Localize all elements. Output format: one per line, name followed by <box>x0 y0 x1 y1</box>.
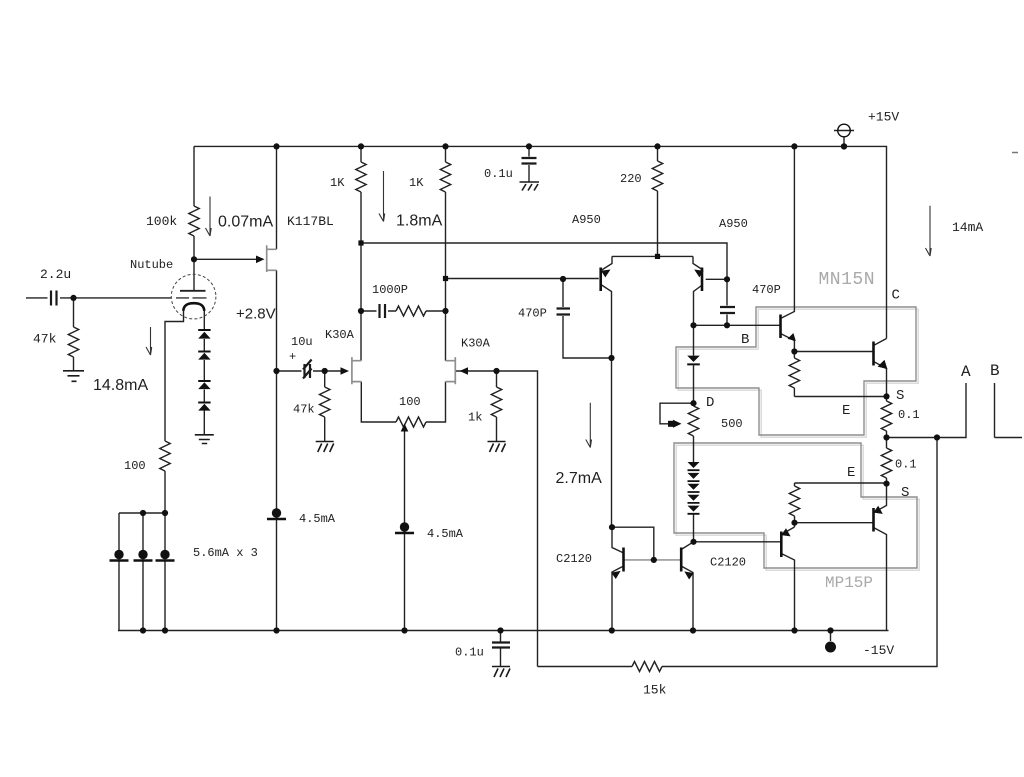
svg-text:15k: 15k <box>643 683 667 698</box>
svg-text:220: 220 <box>620 172 642 186</box>
svg-text:1k: 1k <box>468 411 482 425</box>
svg-text:1K: 1K <box>409 176 424 190</box>
svg-text:E: E <box>847 465 855 481</box>
svg-text:D: D <box>706 395 714 411</box>
svg-text:100k: 100k <box>146 214 177 229</box>
svg-text:C: C <box>892 288 900 304</box>
svg-text:500: 500 <box>721 417 743 431</box>
svg-text:A950: A950 <box>572 213 601 227</box>
svg-text:0.1: 0.1 <box>898 408 920 422</box>
svg-text:C2120: C2120 <box>556 552 592 566</box>
svg-text:47k: 47k <box>33 332 57 347</box>
svg-text:0.1u: 0.1u <box>484 167 513 181</box>
svg-text:0.1: 0.1 <box>895 458 917 472</box>
svg-text:470P: 470P <box>752 283 781 297</box>
svg-text:10u: 10u <box>291 335 313 349</box>
svg-text:0.07mA: 0.07mA <box>218 214 273 231</box>
svg-text:+15V: +15V <box>868 110 899 125</box>
svg-text:S: S <box>901 485 909 501</box>
svg-text:+2.8V: +2.8V <box>236 306 276 323</box>
svg-text:K117BL: K117BL <box>287 214 334 229</box>
svg-text:MP15P: MP15P <box>825 574 873 592</box>
svg-text:B: B <box>741 332 749 348</box>
svg-text:E: E <box>842 403 850 419</box>
svg-text:A: A <box>961 363 971 381</box>
svg-text:B: B <box>990 362 1000 380</box>
svg-text:S: S <box>896 388 904 404</box>
svg-text:5.6mA x 3: 5.6mA x 3 <box>193 546 258 560</box>
svg-text:-15V: -15V <box>863 643 894 658</box>
svg-text:1000P: 1000P <box>372 283 408 297</box>
svg-text:14.8mA: 14.8mA <box>93 377 148 394</box>
svg-text:+: + <box>289 350 296 364</box>
svg-text:2.7mA: 2.7mA <box>556 470 603 487</box>
svg-text:100: 100 <box>399 395 421 409</box>
svg-text:47k: 47k <box>293 403 315 417</box>
svg-text:4.5mA: 4.5mA <box>299 512 336 526</box>
svg-text:2.2u: 2.2u <box>40 267 71 282</box>
svg-text:470P: 470P <box>518 307 547 321</box>
svg-text:4.5mA: 4.5mA <box>427 527 464 541</box>
svg-text:100: 100 <box>124 459 146 473</box>
svg-text:14mA: 14mA <box>952 220 983 235</box>
svg-text:A950: A950 <box>719 217 748 231</box>
svg-text:C2120: C2120 <box>710 556 746 570</box>
svg-text:Nutube: Nutube <box>130 258 173 272</box>
svg-text:1K: 1K <box>330 176 345 190</box>
svg-text:K30A: K30A <box>461 337 491 351</box>
svg-text:1.8mA: 1.8mA <box>396 213 443 230</box>
svg-text:K30A: K30A <box>325 328 355 342</box>
svg-text:0.1u: 0.1u <box>455 646 484 660</box>
svg-text:MN15N: MN15N <box>819 270 876 290</box>
